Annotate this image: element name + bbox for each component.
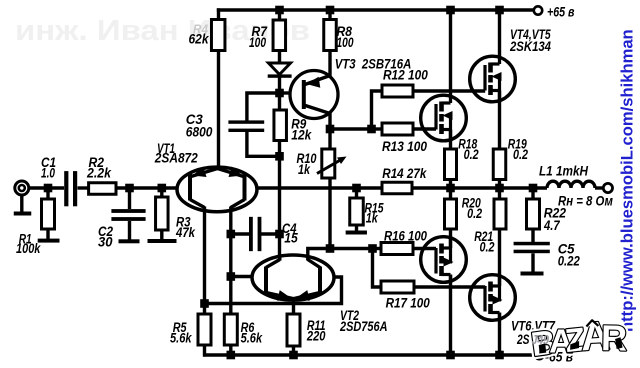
wire R21 top xyxy=(498,188,501,199)
wire collector node to split xyxy=(330,127,372,130)
connector X1 input xyxy=(15,181,29,195)
label R22 value xyxy=(543,218,561,233)
resistor R6 xyxy=(224,314,237,345)
wire R17 to VT7 gate xyxy=(414,285,485,288)
BAZAR logo xyxy=(528,313,629,364)
svg-text:15: 15 xyxy=(284,231,298,246)
label R10 xyxy=(297,151,317,166)
node VT5 drain rail junction xyxy=(446,6,455,15)
node junction R7 top xyxy=(275,6,284,15)
node R12 R13 split junction xyxy=(367,125,376,134)
label 2SJ49 value continued xyxy=(532,332,550,347)
label C5 value xyxy=(558,254,581,269)
node R9 bottom junction xyxy=(275,152,284,161)
label VT3 xyxy=(335,56,412,71)
wire VT3 collector xyxy=(328,113,331,130)
label R5 value xyxy=(170,330,193,345)
wire split up to R12 xyxy=(372,91,383,129)
wire C3 to bottom node xyxy=(247,132,280,157)
label R14 27k xyxy=(382,166,427,181)
transistor VT5 2SK134 xyxy=(421,95,467,141)
resistor R20 xyxy=(445,199,457,229)
resistor R16 xyxy=(381,243,413,255)
resistor R21 xyxy=(494,199,506,229)
label VT1 xyxy=(157,141,175,156)
label VT2 type xyxy=(339,319,387,334)
wire R12 to VT4 gate xyxy=(413,89,485,92)
label R4 value xyxy=(189,32,210,47)
node VT3 base junction xyxy=(275,89,284,98)
label L1 1mkH xyxy=(539,164,588,179)
node C4 left junction xyxy=(227,230,236,239)
ground R3 xyxy=(148,239,177,243)
label R8 value xyxy=(337,35,354,50)
label C2 value xyxy=(98,235,113,250)
resistor R17 xyxy=(381,281,414,293)
capacitor C3 xyxy=(228,120,264,132)
node input junction R1 xyxy=(44,184,53,193)
wire node to R10 xyxy=(328,129,331,149)
resistor R2 xyxy=(89,183,116,195)
resistor R22 xyxy=(527,199,540,229)
node R18 bus junction xyxy=(446,184,455,193)
label 2SK134 xyxy=(509,39,551,54)
wire VT3 base lead xyxy=(280,91,292,94)
transistor VT3 2SB716A xyxy=(290,71,338,119)
node R11 rail junction xyxy=(289,351,298,360)
svg-text:0.2: 0.2 xyxy=(467,206,482,221)
label R18 xyxy=(458,137,477,152)
wire VT5 source down xyxy=(449,130,452,150)
label C4 value xyxy=(284,231,298,246)
label R15 value xyxy=(366,211,379,226)
wire bus right xyxy=(412,186,547,190)
wire VT2 left base column xyxy=(229,234,232,314)
label VT6 VT7 xyxy=(511,319,556,334)
svg-text:5.6k: 5.6k xyxy=(170,330,193,345)
label R19 xyxy=(508,137,527,152)
wire VT2 emitters down xyxy=(292,300,295,315)
wire C2 bottom xyxy=(128,221,131,240)
wire R3 bottom xyxy=(160,230,163,240)
label R21 xyxy=(474,229,493,244)
label R20 value xyxy=(467,206,482,221)
label VT4 VT5 xyxy=(510,27,551,42)
node R16 R17 split junction xyxy=(368,244,377,253)
label R2 value xyxy=(86,165,112,180)
resistor R18 xyxy=(445,149,457,180)
node VT6 rail junction xyxy=(446,351,455,360)
svg-text:+65 в: +65 в xyxy=(547,5,575,20)
wire VT4 source down xyxy=(498,91,501,150)
wire R22 top xyxy=(531,188,534,199)
transistor VT6 2SJ49 xyxy=(421,237,467,283)
terminal output xyxy=(603,183,612,192)
label R1 xyxy=(19,232,32,247)
resistor R4 xyxy=(211,20,225,51)
watermark text xyxy=(15,15,310,47)
capacitor C1 xyxy=(64,171,77,206)
wire VT1 left collector column xyxy=(203,210,206,314)
label R4 xyxy=(193,22,209,37)
svg-text:62k: 62k xyxy=(189,32,210,47)
diode VD1 xyxy=(268,63,292,78)
ground input xyxy=(14,212,32,216)
svg-text:R: R xyxy=(601,317,628,358)
svg-text:2SD756A: 2SD756A xyxy=(339,319,387,334)
wire R15 top xyxy=(355,188,358,198)
resistor R19 xyxy=(493,149,506,180)
svg-text:2SK134: 2SK134 xyxy=(509,39,551,54)
wire R8 top xyxy=(328,10,331,20)
svg-text:R17 100: R17 100 xyxy=(386,296,431,311)
capacitor C2 xyxy=(111,209,145,221)
wire R22 to C5 xyxy=(531,229,534,242)
label R10 value xyxy=(298,162,311,177)
svg-text:4.7: 4.7 xyxy=(543,218,561,233)
label 2SJ49 xyxy=(516,332,529,347)
wire R19 to bus xyxy=(498,180,501,189)
resistor R7 xyxy=(273,20,286,51)
wire L1 to output xyxy=(595,186,603,189)
wire VAS column xyxy=(278,156,281,256)
inductor L1 xyxy=(547,181,595,188)
wire +65V top rail xyxy=(217,8,534,12)
svg-text:220: 220 xyxy=(306,328,326,343)
resistor R12 xyxy=(382,85,413,97)
svg-text:1k: 1k xyxy=(366,211,379,226)
label R20 xyxy=(462,195,481,210)
capacitor C5 xyxy=(514,242,550,253)
resistor R3 xyxy=(156,197,169,230)
node VT4 drain rail junction xyxy=(495,6,504,15)
node VT3 collector junction xyxy=(326,125,335,134)
svg-text:0.22: 0.22 xyxy=(558,254,581,269)
wire C4 left xyxy=(231,232,250,235)
wire C4 right xyxy=(261,232,280,235)
label R18 value xyxy=(464,147,479,162)
wire split to R16 xyxy=(373,247,382,250)
label C5 xyxy=(558,242,575,257)
node R22 bus junction xyxy=(529,184,538,193)
wire R18 to bus xyxy=(449,180,452,189)
node C4 right junction xyxy=(275,230,284,239)
wire R9 bottom xyxy=(278,141,281,157)
resistor R11 xyxy=(287,314,300,346)
wire top rail corner xyxy=(217,8,220,19)
label R6 value xyxy=(241,330,264,345)
label R6 xyxy=(241,320,255,335)
wire C1 to R2 xyxy=(78,186,89,189)
wire VT2 left base lead xyxy=(231,275,253,278)
wire C5 bottom xyxy=(531,253,534,272)
wire R11 bottom xyxy=(292,346,295,355)
node junction R3 xyxy=(158,184,167,193)
label R7 xyxy=(252,24,269,39)
resistor R9 xyxy=(274,110,287,141)
wire input to C1 xyxy=(28,186,64,189)
svg-text:47k: 47k xyxy=(175,225,196,240)
resistor R10 variable xyxy=(317,149,347,178)
node VT2 left base junction xyxy=(227,272,236,281)
label R3 xyxy=(176,214,191,229)
wire R16 to VT6 gate xyxy=(413,247,436,250)
label R17 100 xyxy=(386,296,431,311)
wire node to C3 branch xyxy=(247,93,280,121)
svg-text:0.2: 0.2 xyxy=(513,147,528,162)
label C3 value xyxy=(186,125,213,140)
node junction R8 top xyxy=(326,6,335,15)
ground C2 xyxy=(119,239,140,243)
svg-text:5.6k: 5.6k xyxy=(241,330,264,345)
label R12 100 xyxy=(383,68,428,83)
svg-text:2.2k: 2.2k xyxy=(86,165,112,180)
wire split down to R17 xyxy=(373,249,382,288)
ground R15 xyxy=(346,231,367,235)
label +65 v xyxy=(547,5,575,20)
label R3 value xyxy=(175,225,196,240)
svg-text:R13 100: R13 100 xyxy=(382,139,427,154)
label C3 xyxy=(186,112,203,127)
svg-text:6800: 6800 xyxy=(186,125,213,140)
node VT1 left collector to lower line xyxy=(200,299,209,308)
wire R20 to VT6 source xyxy=(449,229,452,248)
wire R7 to VD1 xyxy=(278,51,281,65)
wire lower crossover line xyxy=(205,277,342,304)
node R10 lower junction xyxy=(326,244,335,253)
label R15 xyxy=(365,200,384,215)
wire -65V bottom rail xyxy=(203,353,535,357)
wire R7 top xyxy=(278,10,281,20)
resistor R8 xyxy=(324,20,337,51)
wire VD1 to node xyxy=(278,77,281,93)
svg-text:100: 100 xyxy=(337,35,354,50)
resistor R5 xyxy=(198,314,211,345)
wire R15 bottom xyxy=(355,225,358,231)
wire R2 to VT1 base xyxy=(116,186,178,189)
wire R10 down across bus xyxy=(328,178,331,249)
ground C5 xyxy=(521,272,544,276)
wire to lower split xyxy=(330,247,373,250)
label VT1 type xyxy=(154,151,198,166)
label R5 xyxy=(173,320,187,335)
node R19 bus junction xyxy=(495,184,504,193)
svg-text:100k: 100k xyxy=(16,241,42,256)
wire C2 top xyxy=(128,188,131,209)
node R6 rail junction xyxy=(227,351,236,360)
wire R3 top xyxy=(160,188,163,197)
node R15 junction xyxy=(352,184,361,193)
svg-text:1k: 1k xyxy=(298,162,311,177)
wire R9 top xyxy=(278,93,281,110)
wire VT5 drain to rail xyxy=(449,10,452,96)
wire connector to ground xyxy=(20,195,23,212)
wire R13 to VT5 gate xyxy=(413,127,436,130)
wire R1 top xyxy=(46,188,49,199)
label R22 xyxy=(544,206,567,221)
svg-text:0.2: 0.2 xyxy=(480,239,495,254)
resistor R14 xyxy=(382,182,412,194)
svg-text:R12 100: R12 100 xyxy=(383,68,428,83)
label C1 xyxy=(41,155,56,170)
label Rn = 8 Om xyxy=(558,194,613,209)
capacitor C4 xyxy=(249,217,261,251)
resistor R13 xyxy=(382,123,413,135)
label R21 value xyxy=(480,239,495,254)
wire R6 bottom xyxy=(229,345,232,355)
url watermark xyxy=(618,29,637,332)
label C1 value xyxy=(41,165,55,180)
svg-text:L1 1mkH: L1 1mkH xyxy=(539,164,588,179)
ground R1 xyxy=(38,239,60,243)
transistor VT7 2SJ49 xyxy=(470,275,516,321)
label R7 value xyxy=(249,35,266,50)
terminal -65V xyxy=(535,351,543,359)
wire VT1 emitters to R4 xyxy=(217,51,220,169)
wire split to R13 xyxy=(372,127,383,130)
svg-text:0.2: 0.2 xyxy=(464,147,479,162)
wire R8 to VT3 emitter xyxy=(328,51,331,78)
label R8 xyxy=(337,24,353,39)
svg-text:2SA872: 2SA872 xyxy=(154,151,198,166)
label R9 value xyxy=(291,127,312,142)
label R1 value xyxy=(16,241,42,256)
svg-text:30: 30 xyxy=(98,235,113,250)
label R19 value xyxy=(513,147,528,162)
resistor R15 xyxy=(350,198,364,225)
node junction C2 xyxy=(125,184,134,193)
svg-text:R14 27k: R14 27k xyxy=(382,166,427,181)
transistor VT1 dual 2SA872 xyxy=(177,167,257,213)
svg-text:100: 100 xyxy=(249,35,266,50)
wire VT6 drain down xyxy=(449,275,452,356)
label R2 xyxy=(89,155,105,170)
label R11 xyxy=(307,318,326,333)
wire VT1 right collector to C4 node xyxy=(229,210,232,234)
label R13 100 xyxy=(382,139,427,154)
wire R1 bottom xyxy=(46,229,49,239)
svg-text:Rн = 8 Ом: Rн = 8 Ом xyxy=(558,194,613,209)
label R11 value xyxy=(306,328,326,343)
svg-text:12k: 12k xyxy=(291,127,312,142)
terminal +65V xyxy=(534,6,542,14)
wire R21 to VT7 source xyxy=(498,229,501,286)
wire VT4 drain to rail xyxy=(498,10,501,58)
wire R20 top xyxy=(449,188,452,199)
svg-text:1.0: 1.0 xyxy=(41,165,55,180)
label C4 xyxy=(282,221,297,236)
node VT7 rail junction xyxy=(495,351,504,360)
label C2 xyxy=(98,224,113,239)
wire VT7 drain down xyxy=(498,313,501,356)
svg-text:J49: J49 xyxy=(532,332,550,347)
label R16 100 xyxy=(384,229,427,244)
transistor VT4 2SK134 xyxy=(470,56,516,102)
label R9 xyxy=(291,117,306,132)
wire VT2 right collector xyxy=(308,249,330,256)
wire R5 bottom xyxy=(203,345,206,357)
wire bus left xyxy=(257,186,382,190)
svg-text:http://www.bluesmobiL.com/shik: http://www.bluesmobiL.com/shikhman xyxy=(618,29,637,332)
label -65 v xyxy=(545,350,573,365)
transistor VT2 dual 2SD756A xyxy=(252,255,334,301)
svg-text:2S: 2S xyxy=(516,332,529,347)
svg-text:R16 100: R16 100 xyxy=(384,229,427,244)
resistor R1 xyxy=(42,199,55,229)
label VT2 xyxy=(340,308,359,323)
